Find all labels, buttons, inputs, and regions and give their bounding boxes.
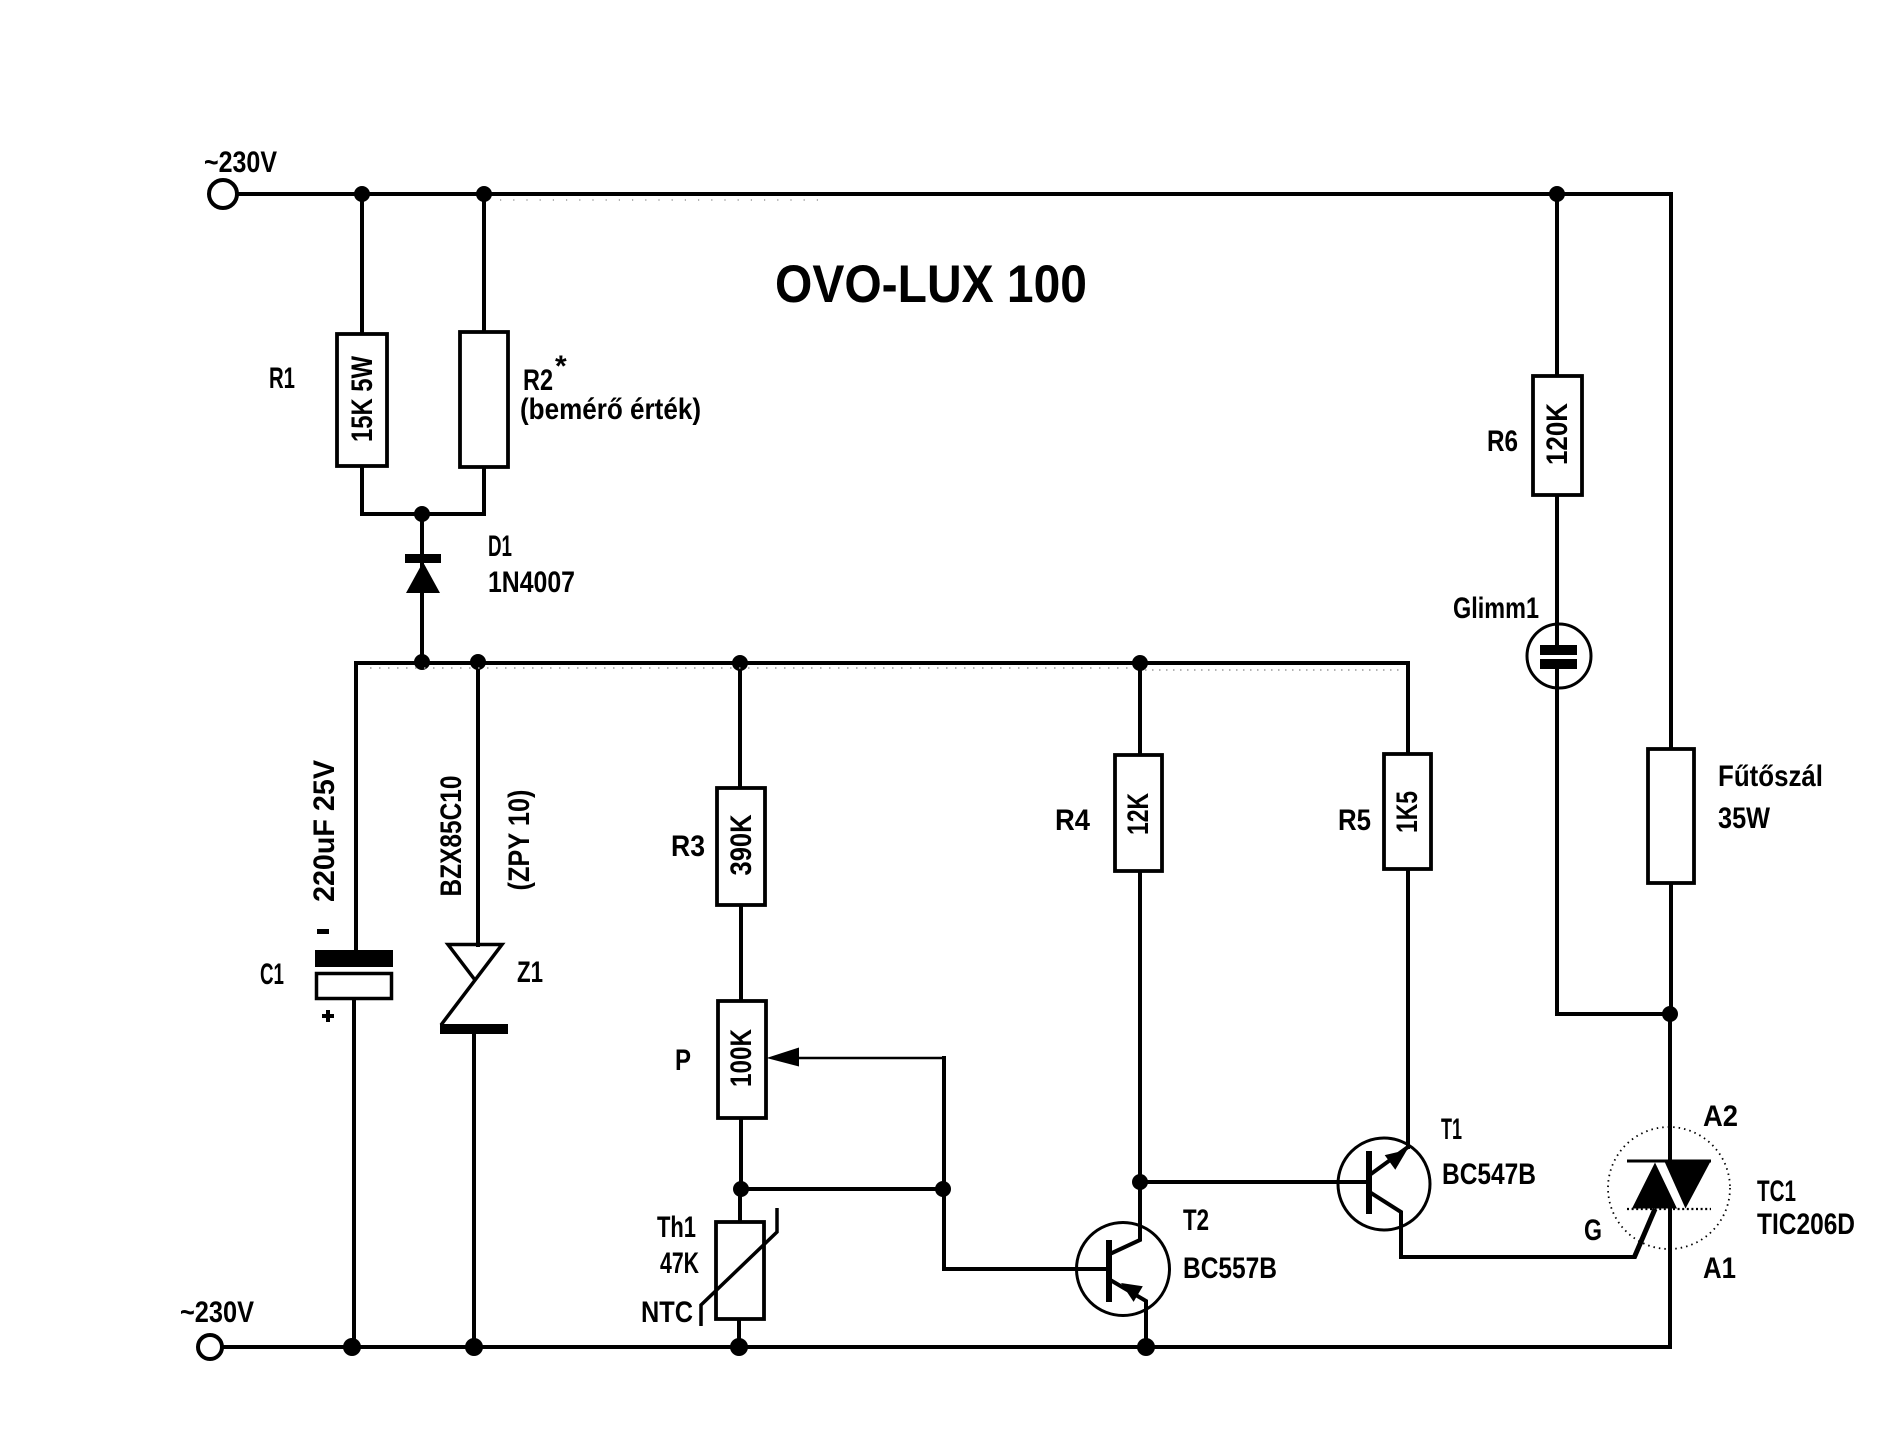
svg-text:~230V: ~230V — [204, 146, 277, 179]
svg-text:BZX85C10: BZX85C10 — [435, 776, 468, 897]
svg-text:47K: 47K — [660, 1247, 699, 1280]
svg-text:TIC206D: TIC206D — [1757, 1208, 1855, 1241]
svg-text:Glimm1: Glimm1 — [1453, 592, 1539, 625]
svg-text:Z1: Z1 — [517, 956, 543, 989]
svg-text:390K: 390K — [725, 814, 758, 875]
svg-text:R6: R6 — [1487, 425, 1518, 458]
svg-text:BC557B: BC557B — [1183, 1252, 1277, 1285]
svg-text:TC1: TC1 — [1757, 1175, 1796, 1208]
svg-text:C1: C1 — [260, 958, 284, 991]
svg-text:12K: 12K — [1122, 793, 1155, 835]
svg-text:(ZPY 10): (ZPY 10) — [503, 790, 536, 891]
svg-text:T1: T1 — [1441, 1113, 1462, 1146]
svg-text:R1: R1 — [269, 362, 295, 395]
svg-text:1K5: 1K5 — [1391, 791, 1424, 833]
svg-text:1N4007: 1N4007 — [488, 566, 575, 599]
svg-text:120K: 120K — [1541, 403, 1574, 465]
svg-text:R3: R3 — [671, 830, 705, 863]
svg-text:R5: R5 — [1338, 804, 1371, 837]
svg-text:A2: A2 — [1703, 1100, 1738, 1133]
svg-text:220uF 25V: 220uF 25V — [308, 760, 341, 902]
svg-text:R4: R4 — [1055, 804, 1090, 837]
svg-text:OVO-LUX 100: OVO-LUX 100 — [775, 255, 1087, 314]
svg-text:P: P — [675, 1044, 691, 1077]
svg-text:T2: T2 — [1183, 1204, 1209, 1237]
svg-text:*: * — [555, 350, 567, 383]
svg-text:NTC: NTC — [641, 1296, 693, 1329]
svg-text:100K: 100K — [725, 1029, 758, 1087]
svg-text:D1: D1 — [488, 530, 512, 563]
svg-text:Fűtőszál: Fűtőszál — [1718, 760, 1823, 793]
svg-text:BC547B: BC547B — [1442, 1158, 1536, 1191]
svg-text:35W: 35W — [1718, 802, 1771, 835]
svg-text:Th1: Th1 — [657, 1211, 696, 1244]
svg-text:(bemérő érték): (bemérő érték) — [520, 393, 701, 426]
svg-text:15K 5W: 15K 5W — [346, 355, 379, 442]
svg-text:G: G — [1584, 1214, 1602, 1247]
svg-text:A1: A1 — [1703, 1252, 1736, 1285]
svg-text:~230V: ~230V — [180, 1296, 254, 1329]
